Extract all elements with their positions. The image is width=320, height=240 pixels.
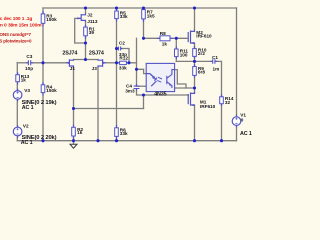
wire M1 gate net <box>144 94 189 96</box>
svg-text:J2: J2 <box>87 13 93 18</box>
wire input net horizontal (C3 gap) <box>17 62 28 64</box>
node rail M2 <box>193 6 196 9</box>
wire J2 gate bypass <box>75 18 86 43</box>
svg-text:C3: C3 <box>26 54 32 59</box>
svg-text:3m3: 3m3 <box>125 89 135 94</box>
node rail J3 <box>96 139 99 142</box>
node output C1 <box>193 60 196 63</box>
wire J1 drain column <box>73 67 75 140</box>
ground <box>70 144 77 148</box>
node J2 bypass <box>84 41 87 44</box>
resistor R12 <box>120 61 127 64</box>
node R11 top <box>175 37 178 40</box>
svg-text:AC 1: AC 1 <box>22 105 34 111</box>
phototransistor inside U1 <box>167 70 175 88</box>
wire R11 to output node <box>176 60 194 62</box>
wire C1 right lead to R14 column <box>215 61 221 96</box>
svg-text:1k: 1k <box>77 130 83 135</box>
wire R7 column <box>143 8 145 38</box>
node R7 gate <box>142 37 145 40</box>
node rail J2 <box>84 6 87 9</box>
voltage source V3 <box>13 91 22 100</box>
svg-text:.OPTIONS numdgt=7: .OPTIONS numdgt=7 <box>0 32 31 37</box>
wire bottom rail <box>17 140 236 142</box>
resistor R1 <box>84 27 88 36</box>
wire mid column R5/R6 <box>116 8 118 141</box>
op-amp U1 optocoupler 4N35 box <box>146 63 174 91</box>
svg-text:1k: 1k <box>162 41 168 46</box>
resistor R5 <box>115 11 119 19</box>
wire feedback vertical <box>143 95 145 109</box>
component lead stubs (blue) <box>18 9 237 140</box>
svg-text:V3: V3 <box>24 88 30 93</box>
transistor M1 <box>188 92 194 106</box>
wire R9 to drain node <box>194 75 196 93</box>
wire C2 left lead <box>117 48 119 50</box>
node rail R14 <box>220 139 223 142</box>
wire bias column x136 upper <box>136 38 138 86</box>
wire R12 net <box>117 62 137 64</box>
wire R8 gate wire <box>144 37 187 39</box>
svg-text:J113: J113 <box>87 19 98 24</box>
svg-text:J3: J3 <box>92 66 98 71</box>
node input R3/R4 <box>41 61 44 64</box>
wire C1 left lead <box>195 60 213 62</box>
transistor J2 <box>78 13 86 21</box>
wire right supply drop to V1 <box>236 8 238 117</box>
wire R14 to rail <box>221 104 223 141</box>
resistor R8 <box>160 36 170 41</box>
wire ground stub <box>73 141 75 144</box>
svg-text:150k: 150k <box>46 17 57 22</box>
svg-text:2r2: 2r2 <box>198 51 205 56</box>
wire J3 drain column <box>97 67 99 140</box>
svg-text:C2: C2 <box>119 41 125 46</box>
node rail R4 <box>41 139 44 142</box>
svg-text:4N35: 4N35 <box>154 91 166 97</box>
voltage source V2 <box>13 127 22 136</box>
resistor R3 <box>41 14 45 23</box>
svg-text:R8: R8 <box>160 31 166 36</box>
wire opto collector jog <box>175 70 186 88</box>
node rail R7 <box>142 6 145 9</box>
svg-text:2SJ74: 2SJ74 <box>62 51 77 57</box>
node R2 top <box>72 107 75 110</box>
wire LED anode jog <box>137 69 147 73</box>
node anode branch <box>135 68 138 71</box>
node rail R6 <box>115 139 118 142</box>
svg-text:IRF610: IRF610 <box>200 104 216 109</box>
svg-text:1m: 1m <box>213 66 220 71</box>
svg-text:150k: 150k <box>46 88 57 93</box>
svg-text:39: 39 <box>89 30 95 35</box>
wire J2 drain from rail <box>85 8 87 14</box>
svg-text:IRF610: IRF610 <box>196 34 212 39</box>
wire input net right of C3 <box>31 62 66 64</box>
transistor J3 <box>98 59 106 67</box>
node rail R5 <box>115 6 118 9</box>
wire diff pair common source <box>74 59 99 61</box>
svg-text:.ac dec 100 1 .1g: .ac dec 100 1 .1g <box>0 16 32 22</box>
svg-text:C1: C1 <box>212 55 218 60</box>
svg-text:1k5: 1k5 <box>147 13 155 18</box>
resistor R6 <box>115 128 119 137</box>
resistor R13 <box>16 75 20 82</box>
wire LED cathode to C4 <box>137 85 147 87</box>
wire feedback horizontal to R2 node <box>74 108 144 110</box>
node rail M1 <box>193 139 196 142</box>
resistor R10 <box>193 49 197 57</box>
node diff source <box>84 58 87 61</box>
wire J3 gate to mid column <box>106 62 117 64</box>
node C2 drop <box>127 61 130 64</box>
svg-text:33k: 33k <box>119 66 127 71</box>
wire M1 source to rail <box>194 106 196 141</box>
svg-text:0: 0 <box>241 117 244 122</box>
resistor R7 <box>142 10 146 19</box>
wire top rail <box>43 7 237 9</box>
wire M2 drain <box>194 8 196 30</box>
svg-text:AC 1: AC 1 <box>240 131 252 137</box>
svg-text:V2: V2 <box>23 124 29 129</box>
svg-text:100: 100 <box>180 52 188 57</box>
capacitor C2 <box>119 47 121 51</box>
svg-text:32: 32 <box>225 100 231 105</box>
wire left column R3/R4 <box>42 8 44 141</box>
wire V1 bottom to rail <box>236 125 238 140</box>
svg-text:33k: 33k <box>120 14 128 19</box>
svg-text:J1: J1 <box>70 66 76 71</box>
svg-text:10p: 10p <box>25 66 33 71</box>
node rail R2 <box>72 139 75 142</box>
svg-text:.OPTIONS plotwinsize=0: .OPTIONS plotwinsize=0 <box>0 38 32 43</box>
wire R11 drop <box>175 38 177 61</box>
resistor R11 <box>175 49 179 57</box>
resistor R2 <box>72 127 76 136</box>
wire C2 right lead and drop <box>121 49 129 63</box>
voltage source V1 <box>232 117 241 126</box>
resistor R9 <box>193 67 197 76</box>
svg-text:33k: 33k <box>120 131 128 136</box>
light arrows inside U1 <box>157 77 162 82</box>
wire opto emitter <box>175 87 195 89</box>
svg-text:33p: 33p <box>119 52 127 57</box>
capacitor C3 <box>28 60 30 65</box>
resistor R4 <box>41 85 45 93</box>
node R12 left <box>115 61 118 64</box>
svg-text:6r8: 6r8 <box>198 70 205 75</box>
transistor M2 <box>188 30 194 44</box>
svg-text:C4: C4 <box>126 83 132 88</box>
node M1 drain <box>193 86 196 89</box>
transistor J1 <box>66 59 73 67</box>
svg-text:AC 1: AC 1 <box>21 140 33 146</box>
capacitor C4 <box>134 86 140 88</box>
svg-text:2SJ74: 2SJ74 <box>89 51 104 57</box>
svg-text:1k: 1k <box>21 78 27 83</box>
resistor R14 <box>220 97 224 104</box>
LED inside U1 <box>146 74 157 87</box>
wire J2 source to R1 to diff node <box>85 22 87 60</box>
wire left source column V3/V2 <box>16 63 18 141</box>
wire M2 source to R10 <box>194 44 196 49</box>
wire R10 to node <box>194 56 196 66</box>
capacitor C1 <box>213 59 215 63</box>
svg-text:.tran 0 38m 15m 100m: .tran 0 38m 15m 100m <box>0 23 42 29</box>
wire bias column below C4 <box>137 89 144 95</box>
node C2 left <box>115 47 118 50</box>
node feedback <box>142 93 145 96</box>
